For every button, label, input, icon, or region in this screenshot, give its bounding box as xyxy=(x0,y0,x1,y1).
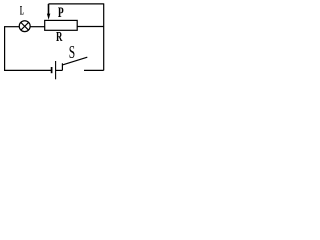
wire R right terminal to right frame xyxy=(77,26,104,28)
lamp L xyxy=(19,21,30,32)
svg-text:L: L xyxy=(20,3,24,17)
wire left vertical xyxy=(4,27,6,71)
wiper arrow P stem xyxy=(48,4,50,15)
wire bottom left (battery to left frame) xyxy=(4,69,51,71)
switch S blade xyxy=(62,57,87,65)
wire right vertical xyxy=(103,3,105,70)
wire battery to switch xyxy=(56,69,63,71)
wire lamp to left frame xyxy=(4,26,19,28)
svg-text:P: P xyxy=(58,5,64,21)
switch S post xyxy=(61,63,63,70)
wire lamp to rheostat box xyxy=(30,26,45,28)
wire top horizontal xyxy=(49,3,104,5)
wiper arrowhead xyxy=(47,14,50,20)
svg-text:R: R xyxy=(56,29,63,44)
resistor R (rheostat body box) xyxy=(45,20,77,30)
battery negative short plate xyxy=(51,67,53,73)
svg-text:S: S xyxy=(69,42,75,62)
battery positive long plate xyxy=(55,61,57,79)
wire switch to right frame xyxy=(84,69,104,71)
